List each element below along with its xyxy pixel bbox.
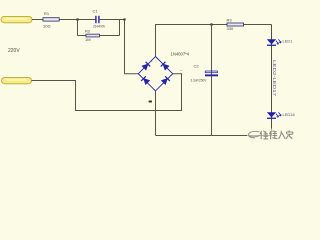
node A (junction of R1 wire and R2 branch) — [76, 18, 78, 20]
svg-text:C2: C2 — [194, 63, 200, 68]
wire C1 right plate to corner node — [100, 19, 125, 21]
svg-text:R2: R2 — [85, 28, 91, 33]
diode D4 (bottom-right edge, points to AC right) — [161, 76, 170, 84]
wire left side of parallel loop — [77, 20, 79, 36]
watermark logo swoosh — [248, 131, 260, 138]
LED LED18 — [267, 112, 281, 119]
watermark text (CJK-style marks) — [260, 131, 293, 140]
wire bottom rail — [156, 135, 272, 137]
wire bridge DC+ up and right rail to LED column — [156, 25, 272, 57]
resistor R1 — [43, 18, 59, 21]
wire right side of parallel loop — [119, 20, 121, 36]
wire corner down to bridge left vertex — [125, 20, 139, 74]
svg-text:10Ω: 10Ω — [43, 23, 50, 28]
terminal J1 (AC live input, yellow pill) — [1, 16, 32, 22]
watermark background lightening over rail — [247, 129, 298, 142]
wire R1 to C1 left plate — [58, 19, 96, 21]
terminal J2 (AC neutral input, yellow pill) — [2, 77, 32, 83]
svg-text:C1: C1 — [93, 8, 99, 13]
wire bottom of parallel loop through R2 — [78, 35, 120, 37]
wire bridge DC- down to bottom rail — [155, 91, 157, 136]
bridge rectifier diamond wires — [138, 57, 172, 91]
svg-text:R3: R3 — [227, 17, 233, 22]
resistor R3 — [227, 23, 244, 26]
wire J2 to bridge AC right (down, right, up) — [32, 74, 182, 111]
diode D3 (bottom-left edge, points to AC left) — [141, 76, 150, 84]
svg-text:LED1: LED1 — [283, 39, 294, 44]
wire J1 to R1 — [32, 19, 44, 21]
node B (corner to bridge AC left) — [123, 18, 125, 20]
svg-text:224/400V: 224/400V — [93, 25, 106, 29]
svg-text:1N4007*4: 1N4007*4 — [171, 52, 190, 57]
svg-text:LED18: LED18 — [283, 112, 296, 117]
wire LED column (right vertical) — [271, 25, 273, 136]
diode D2 (top-right edge, points to DC+) — [161, 62, 169, 70]
bridge polarity mark - — [149, 101, 152, 103]
svg-text:220V: 220V — [8, 48, 20, 54]
svg-text:330: 330 — [227, 26, 234, 31]
svg-text:1M: 1M — [85, 37, 91, 42]
diode D1 (top-left edge, points to DC+) — [142, 62, 150, 70]
resistor R2 — [86, 34, 100, 37]
svg-text:LED2-LED17: LED2-LED17 — [272, 60, 277, 97]
LED LED1 — [267, 39, 281, 46]
node C (junction of DC+ rail and C2 branch) — [210, 23, 212, 25]
svg-text:3.3uF/250V: 3.3uF/250V — [191, 78, 207, 82]
capacitor C1 (film cap on top wire) — [95, 16, 99, 23]
svg-text:R1: R1 — [44, 11, 50, 16]
wire C2 branch vertical — [211, 25, 213, 136]
capacitor C2 (electrolytic) — [205, 71, 218, 76]
